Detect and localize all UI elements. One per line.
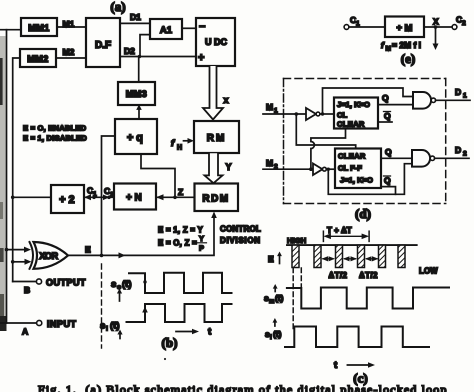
svg-text:= 2M f i: = 2M f i [392,40,421,50]
stray speck [164,358,166,360]
svg-text:Q: Q [384,176,391,186]
node G1 output branch [321,112,324,115]
svg-text:m: m [269,299,274,305]
wire inverter G2 output to FF2 CL [326,168,335,170]
wire XOR input 1 from node A [7,249,27,251]
svg-text:Y: Y [199,234,204,243]
svg-text:ΔT/2: ΔT/2 [329,271,348,280]
svg-text:MM3: MM3 [126,89,148,99]
svg-text:J=1, K=O: J=1, K=O [337,100,370,109]
svg-text:÷ q: ÷ q [127,132,143,144]
time axis arrow section b [176,331,194,333]
svg-text:(e): (e) [401,51,415,66]
NAND gate N2 [412,150,430,167]
flip-flop FF2 [335,149,381,189]
wire M1 cross-couple to FF2 clear [296,114,355,149]
wire divide-by-2 output to node B [13,196,51,198]
label si(t) waveform c [274,322,276,327]
hollow arrow Y from RM to RDM [205,153,223,183]
inverter G2 [313,164,323,176]
dashed box section d [284,78,446,80]
svg-text:Q: Q [384,111,391,121]
svg-text:(d): (d) [355,206,371,221]
svg-text:f: f [381,40,385,50]
svg-text:H: H [177,145,182,152]
svg-text:M: M [266,102,273,112]
hatched pulse 5 [379,245,386,267]
svg-text:x: x [224,95,229,105]
hatched pulse 4 [358,245,365,267]
arrowhead toward divide-by-N [103,195,110,201]
arrow down at node X [435,27,437,44]
wire G2 output feedback under FF2 to NAND2 lower input [328,164,412,195]
svg-text:INPUT: INPUT [47,319,77,329]
svg-text:(t): (t) [110,321,120,332]
svg-text:B: B [24,285,30,295]
svg-text:X: X [433,17,439,27]
wire inverter G1 output to FF1 CL [320,113,334,115]
svg-text:2: 2 [110,192,114,199]
hatched pulse 1 [292,245,299,267]
wire C2 node vertical down to E line [101,197,103,255]
block multiply-M [385,17,424,38]
svg-text:i: i [270,335,272,341]
wire C2 to divide-by-2 with left arrowhead [84,196,114,198]
svg-text:ΔT/2: ΔT/2 [359,271,378,280]
svg-text:RDM: RDM [202,194,229,205]
svg-text:U DC: U DC [205,37,227,47]
svg-text:(c): (c) [353,371,367,386]
svg-text:E: E [268,254,274,264]
NAND gate N1 [413,92,431,109]
wire divide-by-q feedback down to Z line [141,154,175,197]
svg-text:1: 1 [93,191,97,198]
svg-text:XOR: XOR [39,251,58,261]
svg-text:M: M [266,158,273,168]
svg-text:t: t [208,327,212,338]
hatched pulse 2 [314,245,321,267]
svg-text:D.F: D.F [95,40,111,51]
hatched pulse 3 [336,245,343,267]
wire input A vertical from MM1 line down to INPUT [0,29,21,31]
block D.F [86,18,120,67]
block MM2 [20,49,56,67]
svg-text:Fig. 1. (a) Block schematic d: Fig. 1. (a) Block schematic diagram of t… [38,383,448,392]
node G2 output branch [327,168,330,171]
waveform si(t) section c [285,327,429,348]
svg-text:A1: A1 [160,25,173,36]
wire FF2 Q to NAND2 upper input [381,157,412,159]
svg-text:M2: M2 [63,47,75,57]
wire Z: RDM to divide-by-N with arrowhead [156,196,195,198]
svg-text:2: 2 [463,151,467,158]
terminal INPUT [0,322,36,324]
svg-text:E = 1, Z = Y: E = 1, Z = Y [158,226,204,235]
dashed divider between a and b [101,264,103,348]
svg-text:−: − [199,21,205,33]
dashed projection line 2 [300,268,302,288]
wire C1 to multiplier [349,26,385,28]
hollow arrow X from U DC to RM [203,66,223,120]
node C2 [107,196,111,200]
svg-text:s: s [100,321,105,332]
label sm(t) waveform c [274,288,276,292]
svg-text:M: M [386,46,391,53]
wire M1: MM1 to D.F [57,26,86,28]
double arrow between pulses 4 and 5 [367,258,378,260]
wire M2: MM2 to D.F [56,57,86,59]
node M1 branch [295,112,299,116]
svg-text:CL: CL [337,111,347,120]
wire M2 into inverter G2 [263,168,313,170]
waveform so(t) section b [129,273,232,293]
svg-text:(t): (t) [275,293,284,303]
wire G1 output feedback to NAND1 upper input [323,88,414,114]
block RDM [195,184,239,212]
node M2 branch [309,167,313,171]
double arrow between pulses 3 and 4 [345,258,356,260]
svg-text:E = O, ENABLED: E = O, ENABLED [23,124,87,133]
arrow up under si label [119,333,121,339]
inverter G1 [306,108,316,120]
svg-text:E = 1, DISABLED: E = 1, DISABLED [23,134,87,143]
block U DC [196,18,235,66]
wire E: XOR output to RDM control input [68,216,214,256]
svg-text:MM1: MM1 [28,23,50,33]
wire FF1 Q to NAND1 lower input [378,104,413,106]
wire D2: D.F to U DC plus input [120,56,196,58]
svg-text:J=1, K=O: J=1, K=O [340,176,373,185]
svg-text:i: i [106,326,108,333]
svg-text:s: s [111,279,116,290]
svg-text:RM: RM [207,133,227,144]
svg-text:LOW: LOW [419,267,438,276]
svg-text:M1: M1 [63,19,75,29]
svg-text:D: D [455,145,461,155]
svg-text:D1: D1 [130,12,141,22]
svg-text:D2: D2 [124,46,135,56]
svg-text:f: f [171,138,175,149]
wire output B vertical from MM2 line down [13,58,20,282]
svg-text:CONTROL: CONTROL [220,225,261,234]
block RM [194,121,239,153]
svg-text:DIVISION: DIVISION [220,236,261,245]
svg-text:CLEAR: CLEAR [337,120,365,129]
svg-text:OUTPUT: OUTPUT [46,278,86,288]
block MM1 [21,18,57,36]
svg-text:(a): (a) [110,0,125,14]
svg-text:Y: Y [226,162,232,172]
node C1 [92,196,96,200]
block divide-by-N [114,184,156,210]
section e: terminal C1 [344,25,349,30]
wire D1: D.F to A1 [120,22,150,24]
wire C2 node vertical up to divide-by-q input [102,136,116,197]
svg-text:CL F-F: CL F-F [338,164,362,173]
svg-text:÷ M: ÷ M [397,23,413,34]
svg-text:÷ N: ÷ N [126,193,142,204]
svg-text:P: P [199,244,204,253]
svg-text:t: t [334,360,338,371]
XOR gate [30,242,34,269]
node junction on D2 line [138,55,141,58]
wire A1 output to U DC minus input [182,27,196,29]
wire multiplier to C2 with node X [424,26,452,28]
terminal OUTPUT [13,281,36,283]
svg-text:D: D [455,87,461,97]
dashed projection line 1 [292,268,294,329]
waveform si(t) section b [127,304,232,322]
svg-text:CLEAR: CLEAR [338,152,366,161]
svg-text:2: 2 [462,20,466,27]
svg-text:(t): (t) [122,279,132,290]
block MM3 [118,82,155,105]
svg-text:E: E [85,245,91,255]
arrow up under so label [119,292,121,301]
wire M1 into inverter [263,113,306,115]
svg-text:MM2: MM2 [27,54,49,64]
hatched pulse 6 [398,245,405,267]
svg-text:Q: Q [382,93,389,103]
wire D2 output [435,157,469,159]
block A1 [150,19,182,39]
wire FF2 Qbar to feedback line [381,187,396,195]
flip-flop FF1 [334,98,378,129]
svg-text:(b): (b) [162,335,178,350]
wire divide-by-q up to MM3 with arrowhead [138,109,140,119]
waveform E high line [287,244,417,246]
svg-text:(t): (t) [273,329,282,339]
svg-text:A: A [22,327,28,337]
svg-text:Z: Z [178,187,183,197]
waveform sm(t) section c [287,288,449,309]
wire M2 cross-couple to FF1 clear with hop [311,129,346,170]
block divide-by-2 [51,185,84,213]
svg-text:E = O, Z =: E = O, Z = [158,239,197,248]
svg-text:1: 1 [463,93,467,100]
scan artifact gray band left edge [0,36,7,331]
svg-text:+: + [198,52,204,64]
wire branch D2 to A1 lower input [140,35,150,57]
svg-text:÷ 2: ÷ 2 [59,194,74,206]
wire XOR input 2 from node B [13,261,26,263]
terminal C2 [452,25,457,30]
svg-text:HIGH: HIGH [287,236,307,245]
block divide-by-q [115,119,157,154]
wire D1 output [436,99,470,101]
wire FF1 Qbar stub [378,121,392,123]
svg-text:Q: Q [385,147,392,157]
arrowhead up on si rising edge [142,307,148,313]
double arrow between pulses 2 and 3 [323,258,333,260]
wire MM3 output up to D2 line [138,57,140,83]
